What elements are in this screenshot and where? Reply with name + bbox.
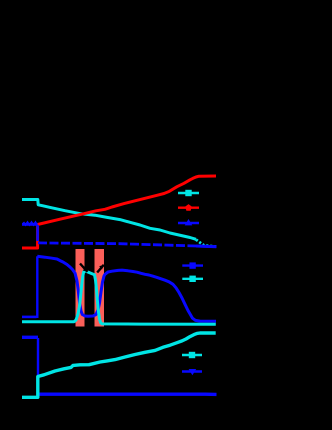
- top panel blue vertical drop: [36, 225, 39, 241]
- top panel blue dashed line (right long segment): [38, 243, 217, 247]
- middle panel blue left segment: [22, 316, 37, 319]
- top panel blue dashed curve (left segment with triangle markers): [22, 223, 38, 226]
- top panel cyan dotted tail: [196, 240, 217, 247]
- bottom panel blue vertical drop: [37, 338, 39, 393]
- middle panel blue curve: [37, 256, 216, 321]
- annotation arrow A (black, over band 1): [80, 264, 88, 272]
- middle panel blue vertical jump: [36, 256, 38, 318]
- top panel cyan curve: [22, 200, 196, 240]
- bottom panel cyan curve: [22, 333, 216, 397]
- middle panel cyan curve: [22, 271, 216, 325]
- shaded band 1 (axvspan): [76, 249, 85, 327]
- middle panel legend: cyan entry with square marker: [182, 276, 203, 282]
- bottom panel legend: blue entry with triangle-down marker: [182, 369, 202, 375]
- top panel legend: red entry with pentagon marker: [178, 204, 199, 211]
- annotation arrow B (black, over band 2): [97, 265, 104, 273]
- top panel legend: blue entry with triangle marker: [178, 219, 199, 225]
- annotation arrow A head: [83, 267, 88, 272]
- annotation arrow B head: [99, 265, 104, 270]
- top panel blue line end segment (merged with cyan dots): [196, 245, 216, 249]
- middle panel legend: blue entry with square marker: [182, 262, 203, 268]
- bottom panel legend: cyan entry with square marker: [182, 352, 202, 358]
- top panel red curve: [22, 176, 216, 248]
- top panel blue left segment marker teeth: [24, 222, 38, 225]
- bottom panel blue top-left segment: [22, 336, 38, 339]
- shaded band 2 (axvspan): [95, 249, 105, 327]
- bottom panel blue flat line: [38, 393, 217, 397]
- top panel legend: cyan entry with square marker: [178, 190, 199, 196]
